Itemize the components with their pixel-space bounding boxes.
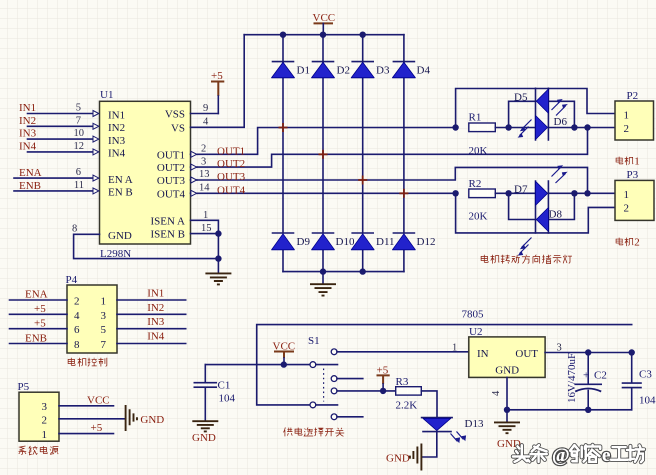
wire VCC top rail [244, 34, 404, 36]
svg-text:D10: D10 [336, 236, 355, 248]
svg-text:5: 5 [76, 103, 81, 114]
junction bottom rail at D10 [320, 268, 326, 274]
junction pin8/ISEN return [215, 255, 221, 261]
svg-text:GND: GND [192, 432, 216, 444]
svg-text:OUT3: OUT3 [217, 171, 246, 183]
pin 4 U2 wire [491, 377, 507, 409]
junction D6/P2.2 [571, 124, 577, 130]
diode D11 [351, 233, 394, 250]
wire R1 right to LED pair [495, 127, 535, 129]
svg-text:D11: D11 [376, 236, 395, 248]
svg-text:4: 4 [491, 390, 502, 396]
connector P2 [615, 90, 654, 140]
svg-text:3: 3 [101, 310, 107, 322]
diode D12 [392, 233, 435, 250]
ground (U1 sense) [205, 259, 231, 285]
svg-text:GND: GND [108, 230, 132, 242]
svg-text:OUT1: OUT1 [157, 149, 185, 161]
wire P4 pin2 [10, 299, 68, 301]
svg-text:7805: 7805 [462, 309, 485, 321]
wire R3 to D13 [421, 391, 437, 417]
capacitor C2 electrolytic [566, 353, 607, 410]
svg-text:VSS: VSS [165, 109, 185, 121]
junction D7/P3.1 [571, 190, 577, 196]
label motor1 [616, 156, 640, 168]
wire S1 throw4 stub [337, 416, 363, 418]
svg-text:2: 2 [624, 203, 630, 215]
svg-text:104: 104 [219, 393, 236, 405]
wire P5 pin3 [59, 405, 114, 407]
pin 15 ISEN B wire [191, 223, 219, 258]
svg-text:D6: D6 [554, 116, 568, 128]
emission arrows D13 [451, 432, 467, 444]
svg-text:GND: GND [495, 365, 519, 377]
svg-text:5: 5 [101, 324, 107, 336]
pin 8 GND wire [72, 224, 218, 259]
power symbol VCC (top rail) [313, 12, 336, 35]
svg-text:IN2: IN2 [147, 302, 164, 314]
emission arrows D7 [552, 165, 568, 183]
svg-text:8: 8 [72, 224, 77, 235]
junction OUT4/R2 left [452, 190, 458, 196]
svg-text:4: 4 [203, 117, 209, 128]
svg-text:OUT2: OUT2 [217, 158, 245, 170]
svg-text:2: 2 [624, 123, 630, 135]
LED D8 [536, 208, 562, 232]
svg-text:16V/470uF: 16V/470uF [566, 353, 578, 403]
caption supply select switch [283, 427, 344, 436]
LED D7 [514, 181, 548, 205]
junction OUT3 riser [584, 190, 590, 196]
wire R2 right to LED pair [495, 192, 535, 194]
junction ISEN B [215, 230, 221, 236]
svg-text:1: 1 [634, 156, 640, 168]
svg-text:D4: D4 [417, 65, 431, 77]
svg-text:1: 1 [203, 210, 208, 221]
power symbol +5 (R3) [377, 365, 390, 391]
wire bottom bridge rail [283, 271, 404, 273]
junction +5/R3 [380, 388, 386, 394]
pin 3 OUT2 wire [191, 128, 588, 171]
no-ERC cross OUT2/column2 [319, 150, 328, 159]
svg-text:IN3: IN3 [19, 128, 37, 140]
svg-text:ENA: ENA [19, 167, 42, 179]
svg-text:IN2: IN2 [108, 122, 125, 134]
emission arrows D6 [552, 99, 568, 116]
svg-text:12: 12 [74, 141, 85, 152]
svg-text:P2: P2 [627, 90, 639, 102]
svg-text:2: 2 [74, 296, 80, 308]
svg-text:@: @ [552, 445, 570, 466]
wire D13 to ground [422, 432, 437, 457]
ground (C1) [192, 421, 218, 444]
svg-text:2: 2 [42, 414, 48, 426]
svg-text:6: 6 [74, 324, 80, 336]
svg-text:IN1: IN1 [19, 102, 36, 114]
switch S1 [308, 335, 338, 420]
ground (P5 right-facing) [126, 405, 165, 431]
LED pair bars D5/D6 [536, 88, 549, 140]
svg-text:D9: D9 [297, 236, 311, 248]
wire OUT2 net to P2.2 [548, 127, 615, 129]
wire column 4 (D4/D12 vertical) [403, 35, 405, 272]
wire column 2 (D2/D10 vertical) [322, 35, 324, 272]
svg-text:IN: IN [477, 348, 489, 360]
resistor R1 [469, 112, 496, 158]
IC U1 L298N [100, 89, 191, 260]
svg-text:D3: D3 [376, 65, 390, 77]
junction bottom rail at D11 [360, 268, 366, 274]
wire column 3 (D3/D11 vertical) [362, 35, 364, 272]
caption motor control [68, 358, 107, 367]
pin 13 OUT3 wire [191, 167, 588, 193]
svg-text:9: 9 [203, 103, 208, 114]
svg-text:GND: GND [386, 453, 410, 465]
power symbol VCC (S1) [273, 341, 296, 365]
svg-text:OUT4: OUT4 [157, 188, 186, 200]
svg-text:8: 8 [74, 339, 80, 351]
wire P4 pin6 [10, 328, 68, 330]
pin 1 ISEN A wire [191, 210, 219, 234]
svg-text:IN4: IN4 [147, 331, 165, 343]
diode D3 [351, 62, 390, 78]
svg-text:7: 7 [101, 339, 107, 351]
svg-text:R1: R1 [469, 112, 482, 124]
svg-text:ISEN A: ISEN A [150, 215, 185, 227]
junction R1/D5 [505, 124, 511, 130]
svg-text:3: 3 [557, 343, 562, 354]
svg-text:20K: 20K [469, 145, 488, 157]
svg-text:IN3: IN3 [147, 316, 165, 328]
svg-text:3: 3 [42, 401, 48, 413]
svg-text:+5: +5 [211, 70, 223, 82]
svg-text:P4: P4 [66, 274, 78, 286]
wire D8 cathode lead [509, 193, 536, 219]
capacitor C3 [623, 353, 656, 410]
svg-text:C1: C1 [218, 380, 231, 392]
svg-text:IN2: IN2 [19, 115, 36, 127]
connector P3 [615, 169, 654, 220]
pin 10 IN3 wire [28, 128, 99, 142]
svg-text:C2: C2 [594, 370, 607, 382]
svg-text:IN4: IN4 [19, 140, 37, 152]
svg-text:VS: VS [171, 122, 185, 134]
no-ERC cross OUT1/column1 [279, 123, 288, 132]
svg-text:D5: D5 [514, 92, 528, 104]
svg-text:11: 11 [74, 180, 84, 191]
junction C3 top [629, 349, 635, 355]
svg-text:4: 4 [74, 310, 80, 322]
svg-text:3: 3 [201, 156, 206, 167]
svg-text:+: + [583, 370, 589, 382]
ground (bridge bottom) [310, 272, 336, 296]
svg-text:D12: D12 [417, 236, 436, 248]
power symbol +5 (VSS) [211, 70, 224, 114]
caption motor direction indicator [481, 255, 572, 264]
diode D10 [312, 233, 355, 250]
svg-text:VCC: VCC [313, 12, 336, 24]
wire P5 pin1 [59, 433, 114, 435]
svg-text:U2: U2 [469, 326, 482, 338]
pin 4 VS wire [191, 35, 245, 128]
pin 2 OUT1 wire [191, 128, 456, 158]
caption system power [19, 446, 59, 455]
svg-text:OUT3: OUT3 [157, 175, 186, 187]
svg-text:+5: +5 [91, 422, 103, 434]
wire P4 pin5 [117, 328, 186, 330]
wire OUT3 net to P3.1 [548, 192, 615, 194]
no-ERC cross OUT3/column3 [358, 176, 367, 185]
junction on rail at D3 [360, 32, 366, 38]
wire P3 pin2 bypass (OUT4 to P3.2) [456, 193, 615, 233]
svg-text:R2: R2 [469, 178, 482, 190]
emission arrows D8 [518, 238, 532, 256]
svg-text:1: 1 [42, 429, 48, 441]
wire P4 pin8 [10, 343, 68, 345]
svg-text:2: 2 [201, 144, 206, 155]
junction on rail at D2/VCC [320, 32, 326, 38]
wire D5 anode lead [548, 101, 574, 127]
svg-text:104: 104 [639, 395, 656, 407]
ground (U2) [494, 410, 521, 450]
junction R2/D8 [505, 190, 511, 196]
svg-text:7: 7 [76, 115, 81, 126]
pin 5 IN1 wire [28, 103, 99, 117]
wire S1 throw2 stub [337, 378, 363, 380]
svg-text:1: 1 [624, 189, 630, 201]
diode D9 [272, 233, 311, 250]
svg-text:D1: D1 [297, 65, 310, 77]
svg-text:6: 6 [76, 167, 81, 178]
svg-text:IN4: IN4 [108, 148, 126, 160]
label motor2 [616, 237, 640, 249]
diode D4 [392, 62, 430, 78]
svg-text:+5: +5 [34, 303, 46, 315]
svg-text:D2: D2 [337, 65, 350, 77]
junction VCC/C1 wire [281, 361, 287, 367]
wire P5 pin2 [59, 418, 125, 420]
wire P4 pin7 [117, 343, 186, 345]
svg-text:2.2K: 2.2K [396, 400, 418, 412]
wire VIN top rail (S1 loop to C3) [257, 325, 632, 405]
svg-text:2: 2 [634, 237, 640, 249]
junction U2 gnd [504, 407, 510, 413]
svg-text:15: 15 [201, 223, 212, 234]
junction C2 top [585, 349, 591, 355]
capacitor C1 [194, 365, 235, 421]
svg-text:OUT2: OUT2 [157, 162, 185, 174]
svg-text:D8: D8 [549, 209, 563, 221]
wire P2 pin1 bypass (OUT1 to P2.1) [456, 89, 615, 128]
pin 14 OUT4 wire [191, 183, 456, 197]
wire C1/VCC to S1 pole1 [205, 364, 310, 366]
svg-text:OUT1: OUT1 [217, 145, 245, 157]
junction OUT1/R1 left [452, 124, 458, 130]
wire P4 pin1 [117, 299, 186, 301]
svg-text:D7: D7 [514, 184, 528, 196]
wire column 1 (D1/D9 vertical) [282, 35, 284, 272]
svg-text:U1: U1 [100, 89, 113, 101]
regulator U2 [469, 326, 545, 377]
LED D13 [422, 418, 484, 432]
LED D5 [514, 89, 548, 113]
junction OUT2 riser [584, 124, 590, 130]
svg-text:ENA: ENA [25, 289, 48, 301]
pin 11 ENB wire [14, 180, 99, 194]
connector P5 [18, 381, 60, 441]
wire D8 anode lead [548, 193, 574, 219]
junction C2 bottom [585, 407, 591, 413]
svg-text:1: 1 [624, 109, 630, 121]
svg-text:R3: R3 [396, 376, 409, 388]
emission arrows D5 [518, 120, 532, 138]
pin 7 IN2 wire [28, 115, 99, 129]
wire D5 cathode lead [509, 101, 536, 127]
svg-text:GND: GND [140, 414, 164, 426]
resistor R2 [469, 178, 496, 223]
svg-text:ISEN B: ISEN B [150, 229, 185, 241]
svg-text:EN B: EN B [108, 187, 133, 199]
svg-text:ENB: ENB [25, 332, 47, 344]
svg-text:20K: 20K [469, 211, 488, 223]
svg-text:D13: D13 [465, 418, 484, 430]
svg-text:OUT: OUT [515, 348, 538, 360]
wire P4 pin4 [10, 313, 68, 315]
diode D1 [272, 62, 310, 78]
LED D6 [536, 116, 568, 140]
svg-text:IN3: IN3 [108, 135, 126, 147]
resistor R3 [396, 376, 422, 412]
svg-text:IN1: IN1 [108, 109, 125, 121]
svg-text:e: e [602, 445, 610, 466]
svg-text:13: 13 [199, 169, 210, 180]
pin 9 VSS wire [191, 103, 219, 114]
svg-text:C3: C3 [639, 369, 652, 381]
svg-text:ENB: ENB [19, 180, 41, 192]
wire P4 pin3 [117, 313, 186, 315]
svg-text:EN A: EN A [108, 174, 133, 186]
svg-text:VCC: VCC [87, 395, 110, 407]
svg-text:P5: P5 [18, 381, 30, 393]
wire S1 throw3 to R3 [337, 390, 396, 392]
svg-text:1: 1 [101, 296, 107, 308]
wire S1 throw1 to U2 IN [337, 351, 469, 353]
pin 12 IN4 wire [28, 141, 99, 155]
pin 3 U2 wire [545, 343, 632, 354]
connector P4 [66, 274, 118, 353]
svg-text:10: 10 [74, 128, 85, 139]
watermark headline [513, 445, 644, 466]
wire ground rail U2 [507, 409, 632, 411]
ground (D13 left-facing) [386, 444, 421, 471]
svg-text:P3: P3 [627, 169, 639, 181]
svg-text:14: 14 [199, 183, 210, 194]
svg-text:OUT4: OUT4 [217, 184, 246, 196]
junction on rail at D1 [280, 32, 286, 38]
svg-text:1: 1 [452, 343, 457, 354]
diode D2 [312, 62, 350, 78]
svg-text:IN1: IN1 [147, 288, 164, 300]
pin 6 ENA wire [14, 167, 99, 181]
svg-text:+5: +5 [34, 317, 46, 329]
LED pair bars D7/D8 [536, 181, 549, 233]
no-ERC cross OUT4/column4 [399, 189, 408, 198]
svg-text:S1: S1 [308, 335, 320, 347]
